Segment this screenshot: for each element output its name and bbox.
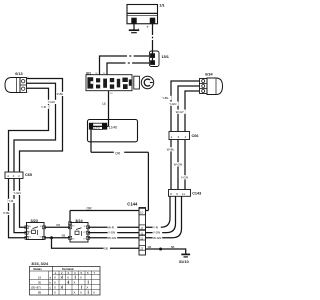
ground wire to 31/10 [146, 245, 186, 254]
svg-text:Y-GN: Y-GN [13, 191, 20, 195]
wire 3/23 lower to 3/24 SB with junction [44, 237, 70, 239]
svg-text:Y-BL: Y-BL [162, 96, 169, 100]
wire 3/24 pin 30 to C144 pin 8 [88, 226, 139, 228]
svg-text:13/3: 13/3 [93, 125, 99, 129]
wire switch to fuse [108, 91, 110, 120]
wire down right [147, 152, 149, 210]
switch pin numbers [95, 73, 113, 95]
svg-text:15/1: 15/1 [162, 55, 169, 59]
svg-text:13: 13 [140, 247, 143, 251]
key lock barrel [134, 76, 140, 89]
connector C65 [5, 172, 23, 179]
svg-text:X: X [67, 276, 69, 280]
wire C144 pin 9 to C143 [146, 196, 176, 232]
svg-text:Y-R: Y-R [41, 105, 47, 109]
svg-text:11/46: 11/46 [109, 126, 117, 130]
svg-text:6/13: 6/13 [15, 72, 22, 76]
svg-text:30: 30 [38, 281, 42, 285]
svg-text:31/10: 31/10 [179, 259, 190, 264]
svg-text:SB: SB [104, 247, 108, 251]
wire C144 pin 8 to C143 [146, 196, 171, 227]
connector C144 [139, 208, 146, 256]
svg-text:C144: C144 [127, 201, 138, 206]
svg-text:OR: OR [87, 206, 93, 210]
svg-text:+: + [146, 24, 149, 29]
svg-text:15: 15 [102, 102, 106, 106]
svg-text:10: 10 [140, 211, 144, 215]
svg-text:6/34: 6/34 [205, 72, 213, 76]
svg-text:12: 12 [140, 236, 143, 240]
label SB [104, 246, 110, 251]
svg-text:1/1: 1/1 [159, 2, 165, 7]
wire junction down to ground bus [52, 238, 140, 249]
wire colour labels P-BL / Y-GN / Y-R [41, 92, 66, 109]
wire switch to 15/1 lower [107, 63, 149, 75]
table 3/23,3/24 [30, 262, 101, 295]
relay 3/23 [25, 223, 46, 240]
component 6/34 [200, 78, 223, 95]
svg-text:W-GN: W-GN [153, 236, 161, 240]
svg-text:X: X [74, 291, 76, 295]
wire C66 pin 4 to 6/34 pin 3 [185, 91, 200, 132]
wire colour labels below C65 [3, 191, 23, 215]
svg-text:Y-R: Y-R [8, 199, 14, 203]
svg-text:OR: OR [56, 223, 60, 227]
component 6/13 [5, 78, 27, 93]
svg-text:X: X [74, 281, 76, 285]
ground symbol 31/10 [181, 254, 190, 257]
ground under battery [129, 24, 139, 33]
svg-text:SB: SB [148, 245, 152, 249]
wire battery + down to 15/1 [152, 24, 154, 51]
svg-text:X: X [87, 286, 89, 290]
svg-text:W-GN: W-GN [108, 236, 116, 240]
wire C65 pin2 to 3/23 pin 86 [20, 179, 27, 228]
wire switch to 15/1 upper [100, 56, 150, 75]
relay 3/24 pin numbers [72, 225, 87, 240]
battery 1/1 [127, 5, 158, 31]
wire 3/23 to 3/24 OR [44, 226, 70, 228]
wire C143 to C66 pin 4 [184, 140, 186, 190]
junction box 15/1 [149, 51, 159, 67]
wire C66 pin 1 to 6/34 pin 1 [171, 81, 200, 132]
wire C66 pin 3 to 6/34 pin 2 [178, 86, 200, 132]
ignition switch 3/1 [86, 75, 132, 91]
svg-text:Relais: Relais [34, 267, 43, 271]
svg-text:C143: C143 [192, 192, 201, 196]
svg-text:3/23, 3/24: 3/23, 3/24 [31, 262, 49, 266]
svg-text:C66: C66 [192, 134, 199, 138]
wire fuse out (OR) [91, 142, 148, 153]
svg-text:P-BL: P-BL [3, 211, 10, 215]
wire C143 to C66 pin 1 [170, 140, 172, 190]
svg-text:W-GY: W-GY [176, 110, 184, 114]
svg-text:P-BL: P-BL [57, 92, 64, 96]
svg-text:W-R: W-R [108, 225, 115, 229]
svg-text:X: X [54, 286, 56, 290]
svg-text:W-GN: W-GN [174, 163, 182, 167]
svg-text:X: X [54, 291, 56, 295]
wire across to relay 3/24 [70, 211, 148, 223]
svg-text:SB: SB [62, 234, 66, 238]
svg-text:X: X [80, 276, 82, 280]
wire C65 pin4 to 3/23 pin 31 [9, 179, 27, 238]
svg-text:X: X [93, 291, 95, 295]
svg-text:3/23: 3/23 [31, 219, 38, 223]
svg-text:SB: SB [171, 245, 175, 249]
svg-text:Y-R: Y-R [153, 225, 159, 229]
relay 3/24 [68, 222, 89, 242]
svg-text:Y-GN: Y-GN [108, 231, 115, 235]
svg-text:X: X [54, 276, 56, 280]
svg-text:85: 85 [38, 291, 42, 295]
svg-text:15: 15 [38, 276, 42, 280]
wire 6/13 pin1 to C65 [20, 79, 63, 173]
fuse box 11/46 [88, 120, 138, 142]
6/13 pin numbers [27, 77, 29, 93]
wire C143 to C66 pin 3 [177, 140, 179, 190]
wire 3/24 pin 87 to C144 pin 9 [88, 232, 139, 234]
svg-text:C65: C65 [25, 173, 32, 177]
connector C143 [169, 190, 191, 197]
label OR [114, 150, 124, 156]
wire C144 pin 12 to C143 [146, 196, 182, 237]
relay 3/23 pin numbers [29, 226, 43, 239]
svg-text:X: X [80, 291, 82, 295]
connector C66 [169, 132, 190, 140]
svg-text:Y-GN: Y-GN [169, 102, 176, 106]
svg-text:11: 11 [182, 192, 185, 196]
wire 3/24 pin 87 to C144 pin 12 [88, 237, 139, 239]
svg-text:X: X [54, 281, 56, 285]
wire 6/13 pin3 to C65 [9, 88, 49, 172]
wire C65 pin3 to 3/23 pin 85 [14, 179, 27, 233]
key symbol circle [141, 76, 153, 88]
wire 6/13 pin2 to C65 [14, 83, 56, 172]
svg-text:W-BL: W-BL [167, 148, 175, 152]
fuse element [93, 123, 103, 129]
svg-text:Y-GN: Y-GN [153, 231, 160, 235]
svg-text:OR: OR [115, 151, 121, 155]
svg-text:3/24: 3/24 [75, 219, 83, 223]
svg-text:Y-GN: Y-GN [181, 176, 188, 180]
svg-text:(30–87): (30–87) [31, 286, 41, 290]
svg-text:Y-GN: Y-GN [48, 100, 55, 104]
